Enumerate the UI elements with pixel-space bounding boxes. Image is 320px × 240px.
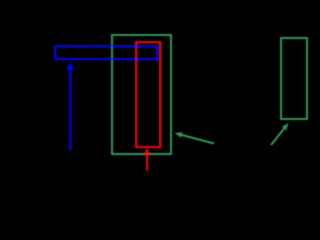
green outer box (large) [112,35,171,154]
green arrow (pointing up-right at right green box) [271,123,289,145]
blue arrow (pointing up at blue box) [66,62,74,151]
blue horizontal box [55,46,157,59]
red arrow (pointing up at red box bottom) [144,148,150,170]
green box (right) [281,38,307,119]
red inner box [136,42,160,147]
green arrow (pointing up-left at large green box) [175,132,215,143]
